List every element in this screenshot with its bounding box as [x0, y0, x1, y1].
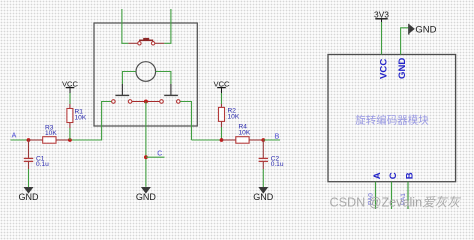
svg-text:0.1u: 0.1u — [271, 161, 284, 168]
capacitor C1 bottom pin — [28, 161, 30, 169]
contact circle A-side inner — [128, 100, 132, 104]
node C junction dot — [144, 155, 148, 159]
svg-text:旋转编码器模块: 旋转编码器模块 — [355, 114, 429, 127]
VCC power port left stub — [69, 88, 71, 93]
red link contact row — [132, 101, 160, 103]
resistor R4 left pin — [222, 139, 236, 141]
common junction dot — [144, 100, 148, 104]
contact terminal B circle — [177, 100, 181, 104]
wire: module GND pin riser — [401, 28, 409, 55]
capacitor C2 bottom plate — [259, 160, 268, 162]
wire: push-button left stub — [122, 9, 128, 43]
svg-text:0.1u: 0.1u — [36, 161, 49, 168]
resistor R3 left pin — [29, 139, 43, 141]
push-button left terminal circle — [138, 42, 141, 45]
left wiper stem — [121, 84, 123, 95]
resistor R4 right pin — [249, 139, 263, 141]
capacitor C1 bottom plate — [24, 160, 33, 162]
wire: module pin A stub — [375, 182, 377, 209]
wire: B drop to R4 — [192, 139, 222, 141]
svg-text:3V3: 3V3 — [374, 9, 389, 19]
VCC power port right stub — [221, 88, 223, 93]
resistor R2 top pin — [221, 104, 223, 107]
svg-text:B: B — [275, 133, 280, 140]
wire: A drop continues left — [70, 139, 94, 141]
wire: R2 to node B — [221, 127, 223, 140]
ground symbol under C1 — [24, 187, 34, 194]
wire: module pin B stub — [407, 182, 409, 209]
wire: VCC to R2 — [221, 93, 223, 104]
svg-text:C: C — [388, 172, 399, 179]
svg-text:GND: GND — [253, 192, 274, 202]
node C stub wire — [146, 156, 165, 158]
svg-text:VCC: VCC — [379, 59, 390, 79]
resistor R4 body — [236, 137, 249, 144]
svg-text:10K: 10K — [239, 129, 251, 136]
VCC power port left bar — [66, 87, 75, 89]
svg-text:B: B — [404, 172, 415, 179]
wire: common drop to node C — [145, 102, 147, 187]
wire: shaft to left wiper — [122, 72, 136, 85]
module box — [328, 55, 456, 182]
junction dot at C2 top — [261, 138, 265, 142]
svg-text:CSDN @Zevalin爱灰灰: CSDN @Zevalin爱灰灰 — [330, 195, 462, 209]
push-button left pin — [128, 42, 137, 44]
push-button right pin — [155, 42, 164, 44]
encoder shaft circle — [136, 62, 156, 82]
wire: shaft to right wiper — [156, 72, 171, 85]
wire: node B tail — [263, 139, 280, 141]
capacitor C2 bottom pin — [262, 161, 264, 169]
left wiper bar — [115, 94, 129, 96]
capacitor C2 top pin — [262, 140, 264, 158]
capacitor C1 top pin — [28, 140, 30, 158]
resistor R2 body — [219, 107, 225, 121]
push-button actuator bar — [139, 40, 153, 42]
ground symbol under C2 — [258, 187, 268, 194]
contact circle B-side inner — [160, 100, 164, 104]
wire: push-button right stub — [164, 9, 171, 43]
svg-text:10K: 10K — [228, 114, 240, 121]
wire: C1 to GND — [28, 169, 30, 188]
resistor R3 right pin — [56, 139, 70, 141]
wire: VCC to R1 — [69, 93, 71, 104]
resistor R3 body — [43, 137, 56, 144]
junction dot at R2 bottom — [220, 138, 224, 142]
rotary encoder body box — [94, 23, 197, 126]
wire: module pin C stub — [391, 182, 393, 209]
resistor R2 bottom pin — [221, 121, 223, 127]
junction dot at C1 — [27, 138, 31, 142]
svg-text:GND: GND — [136, 192, 157, 202]
ground flag arrow — [409, 24, 415, 33]
right wiper bar — [164, 94, 178, 96]
right wiper stem — [170, 84, 172, 95]
svg-text:A: A — [12, 133, 17, 140]
svg-text:10K: 10K — [75, 115, 87, 122]
resistor R1 bottom pin — [69, 123, 71, 129]
contact terminal A circle — [112, 100, 116, 104]
node A wire — [11, 139, 29, 141]
push-button right terminal circle — [151, 42, 154, 45]
wire: left contact to A drop — [94, 102, 112, 141]
resistor R1 body — [67, 109, 73, 123]
3V3 power port bar — [375, 18, 387, 20]
VCC power port right bar — [217, 87, 226, 89]
svg-text:GND: GND — [415, 25, 436, 36]
wire: 3V3 to module VCC pin — [381, 22, 383, 55]
ground symbol under node C — [141, 187, 151, 194]
wire: R1 to node A — [69, 128, 71, 140]
push-button actuator cap — [143, 38, 149, 40]
svg-text:GND: GND — [397, 58, 408, 79]
svg-text:C: C — [157, 151, 162, 158]
svg-text:10K: 10K — [45, 130, 57, 137]
wire: C2 to GND — [262, 169, 264, 188]
svg-text:A: A — [372, 172, 383, 179]
wire: right contact to B drop — [180, 102, 191, 141]
resistor R1 top pin — [69, 104, 71, 109]
3V3 power port stub — [381, 19, 383, 22]
svg-text:GND: GND — [19, 192, 40, 202]
capacitor C1 top plate — [24, 157, 33, 159]
junction dot at R1 bottom — [68, 138, 72, 142]
capacitor C2 top plate — [259, 157, 268, 159]
ground flag bar — [408, 24, 410, 35]
